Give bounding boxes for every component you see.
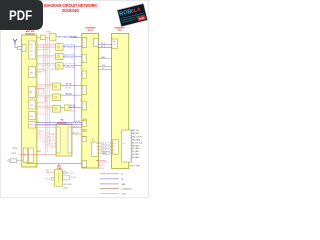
svg-text:SD_CLK VDD: SD_CLK VDD [132, 142, 143, 144]
pin box U201.L5 [82, 102, 87, 110]
svg-text:SD_DAT3: SD_DAT3 [132, 156, 140, 159]
junction mic [97, 160, 98, 161]
wire FL205 out [63, 65, 65, 67]
wire crystal up [58, 163, 60, 166]
wire antenna feed [15, 45, 18, 48]
pin box U101.P5 [29, 112, 36, 120]
filter FL207 [53, 94, 61, 101]
svg-text:GSM_RX: GSM_RX [65, 66, 74, 68]
pin box U101.G1 [23, 148, 28, 163]
pin box U301.P1 [112, 39, 117, 49]
svg-text:B1_RX: B1_RX [66, 84, 72, 86]
svg-text:FL201: FL201 [46, 32, 51, 34]
filter FL205 GSM RX [56, 63, 64, 69]
svg-text:GPS: GPS [102, 65, 105, 67]
svg-text:RF IC: RF IC [88, 30, 94, 32]
svg-text:SIM_DATA: SIM_DATA [132, 139, 141, 142]
logo badge [117, 3, 148, 26]
pin box U201.L4 [82, 86, 87, 95]
crystal Y801 label [57, 166, 63, 170]
svg-text:DCS_RX: DCS_RX [65, 46, 74, 48]
block U101 antenna switch module [22, 35, 37, 167]
svg-text:SKY77345 GSM FEM: SKY77345 GSM FEM [58, 36, 78, 38]
pin box Y801.2 [63, 175, 70, 180]
wire FL208 out [61, 107, 65, 109]
filter FL203 DCS RX [56, 44, 64, 51]
svg-text:LDO: LDO [122, 193, 127, 195]
page border frame [0, 0, 148, 197]
svg-text:MODULE: MODULE [57, 122, 67, 124]
label U201 [86, 27, 97, 32]
pin box U101.G2 [29, 148, 34, 163]
pin box U401.R [68, 127, 72, 153]
svg-text:TX_N: TX_N [102, 147, 107, 149]
svg-text:B3_RX: B3_RX [66, 94, 72, 96]
wire U201-U301 gray1 [98, 57, 113, 59]
net labels J301 [132, 130, 143, 159]
wire rowC to U201 [75, 45, 83, 47]
svg-text:SD_DAT2: SD_DAT2 [132, 153, 140, 156]
svg-text:SIM_CLK VIO: SIM_CLK VIO [132, 137, 143, 139]
legend row5 line [100, 192, 119, 194]
wire rowA in [37, 37, 40, 39]
pin marks U201.P1 [82, 40, 84, 45]
wire rowA mid [46, 37, 50, 39]
wire U401 to U201 purple [37, 124, 82, 126]
connector J301 [122, 130, 132, 162]
svg-text:SIM_VDD: SIM_VDD [132, 130, 140, 132]
pdf badge [0, 0, 43, 30]
page background [0, 0, 149, 198]
svg-text:MIC_P MIC_N: MIC_P MIC_N [99, 161, 110, 163]
cap C201 [40, 35, 45, 40]
svg-text:PDF: PDF [9, 7, 33, 23]
svg-text:B1_TX: B1_TX [66, 88, 72, 90]
svg-text:2G/3G/4G: 2G/3G/4G [62, 8, 79, 13]
wire U401 out red1 [72, 127, 82, 129]
pin bar U201.P4a [82, 129, 86, 131]
pin marks U101.P1 [30, 45, 32, 56]
svg-text:C805: C805 [11, 153, 16, 155]
pin box U201.P5 [82, 137, 87, 142]
wire U201-U301 blue2 [98, 46, 114, 48]
pin box U201.P7 [82, 160, 86, 167]
pin bar U201.P4b [82, 136, 86, 138]
wire U401 out red2 [72, 133, 82, 135]
block U301 baseband [112, 34, 129, 169]
ESD component E1 [18, 46, 23, 49]
wire FL206 out [61, 84, 83, 86]
net labels pink column [50, 134, 58, 149]
wire rowA out [56, 35, 57, 37]
red bus wires [44, 36, 50, 156]
cap box C644 [38, 88, 44, 93]
pin box U101.ANT [22, 45, 26, 52]
svg-text:C813: C813 [63, 187, 67, 189]
net label FL205 [65, 64, 75, 68]
pin marks U201.P6 [96, 144, 98, 154]
wire U201-U301 gray3 [98, 69, 113, 71]
svg-text:SPK_P: SPK_P [99, 165, 104, 167]
pin marks U401 [56, 130, 72, 150]
pin box U101.P2 [29, 67, 36, 78]
block U401 PMIC [56, 124, 72, 156]
wire c805 [19, 154, 56, 156]
pin box U201.P2 [94, 39, 99, 47]
svg-text:MSM8909: MSM8909 [115, 27, 126, 29]
pin box U201.L3 [82, 71, 87, 78]
wire rowH to U201 [69, 107, 82, 109]
svg-text:SD_CMD: SD_CMD [132, 145, 140, 147]
label U101 [25, 30, 35, 36]
wire FL203 out [63, 45, 65, 47]
svg-text:PCS_RX: PCS_RX [65, 56, 74, 58]
wire rowE to U201 [75, 65, 83, 67]
svg-text:C641: C641 [38, 71, 42, 73]
wire inside U201 [92, 137, 94, 142]
filter FL206 [53, 83, 61, 90]
pin box Y801.L [51, 178, 54, 181]
wire rowA to U201 [71, 37, 82, 39]
svg-text:CPU: CPU [117, 30, 122, 32]
wire L801 out [17, 160, 23, 162]
svg-text:SSBI_1: SSBI_1 [101, 57, 107, 59]
svg-text:B3T: B3T [44, 98, 47, 100]
svg-text:XO_OUT: XO_OUT [67, 172, 74, 174]
wire Y801 left [46, 171, 55, 173]
legend row3 line [100, 183, 119, 185]
label U301 [115, 27, 126, 32]
filter FL201 [50, 33, 56, 40]
pin marks U301.P2 [114, 143, 116, 153]
pin box Y801.1 [63, 171, 66, 174]
pin box U401.L [56, 127, 60, 153]
legend row1 line [100, 173, 119, 175]
label box tx4 [103, 152, 109, 154]
svg-text:ANT SW: ANT SW [26, 30, 36, 33]
pin box U201.P3 [82, 121, 87, 127]
svg-text:SPK_N: SPK_N [99, 168, 105, 170]
svg-text:VBAT: VBAT [37, 150, 41, 153]
wire U401 to U201 blue [37, 121, 82, 123]
svg-text:XO_IN: XO_IN [70, 177, 76, 179]
diplexer D208 [64, 105, 69, 111]
filter FL208 [53, 105, 61, 112]
wire U201-U301 gray2 [98, 66, 113, 68]
crystal Y801 [55, 169, 63, 186]
pin box U101.P4 [29, 100, 36, 109]
svg-text:RFIN: RFIN [83, 119, 88, 121]
svg-text:MODULE: MODULE [25, 33, 35, 35]
wire U301 right out [129, 165, 136, 167]
pin box U101.P1 [29, 41, 36, 59]
pink fan wires [37, 130, 50, 147]
svg-text:ANT_D: ANT_D [70, 110, 76, 113]
wire U201-U301 blue1 [98, 44, 114, 46]
pin box U201.P6 [92, 142, 98, 157]
pin marks U301.P1 [113, 42, 116, 45]
filter FL204 PCS RX [56, 53, 64, 59]
wire U201-U301 red rows [98, 144, 113, 154]
svg-text:PA: PA [61, 119, 64, 122]
red stub wires from U101 [37, 45, 56, 128]
wire FL207 out [61, 94, 83, 96]
net label FL204 [65, 54, 75, 58]
svg-text:SIM_RST: SIM_RST [132, 133, 139, 135]
wire mic [96, 159, 106, 161]
svg-text:SD_DAT1: SD_DAT1 [132, 150, 140, 153]
wire vertical purple [73, 45, 75, 122]
net label FL203 [65, 45, 75, 49]
inductor L801 [8, 159, 17, 162]
pin box U201.P1 [82, 38, 87, 48]
legend row2 line [100, 178, 119, 180]
pin mark U101.P6 [30, 124, 34, 126]
legend row4 line [100, 188, 119, 190]
label U401 [57, 119, 67, 125]
svg-text:R801: R801 [13, 148, 18, 150]
wire main red bottom [26, 162, 82, 164]
pin box U301.P2 [113, 140, 118, 155]
svg-text:Calibration: Calibration [122, 188, 133, 191]
pin box U101.P3 [29, 87, 36, 98]
antenna ANT1 [13, 39, 17, 45]
svg-text:SD_DAT0: SD_DAT0 [132, 147, 140, 150]
svg-text:ANT_C: ANT_C [52, 68, 59, 71]
svg-text:RX_P: RX_P [101, 43, 105, 45]
net labels tx rows [101, 142, 110, 154]
pin marks J301 [130, 132, 132, 158]
wire rowD to U201 [75, 55, 83, 57]
block U201 RF transceiver [82, 34, 99, 169]
svg-text:SW: SW [122, 184, 125, 186]
pin box U101.P6 [29, 122, 36, 129]
svg-text:WTR2955: WTR2955 [86, 27, 97, 29]
wire FL204 out [63, 55, 65, 57]
svg-text:C812 GND: C812 GND [63, 184, 72, 186]
pin box U201.L2 [82, 54, 87, 62]
